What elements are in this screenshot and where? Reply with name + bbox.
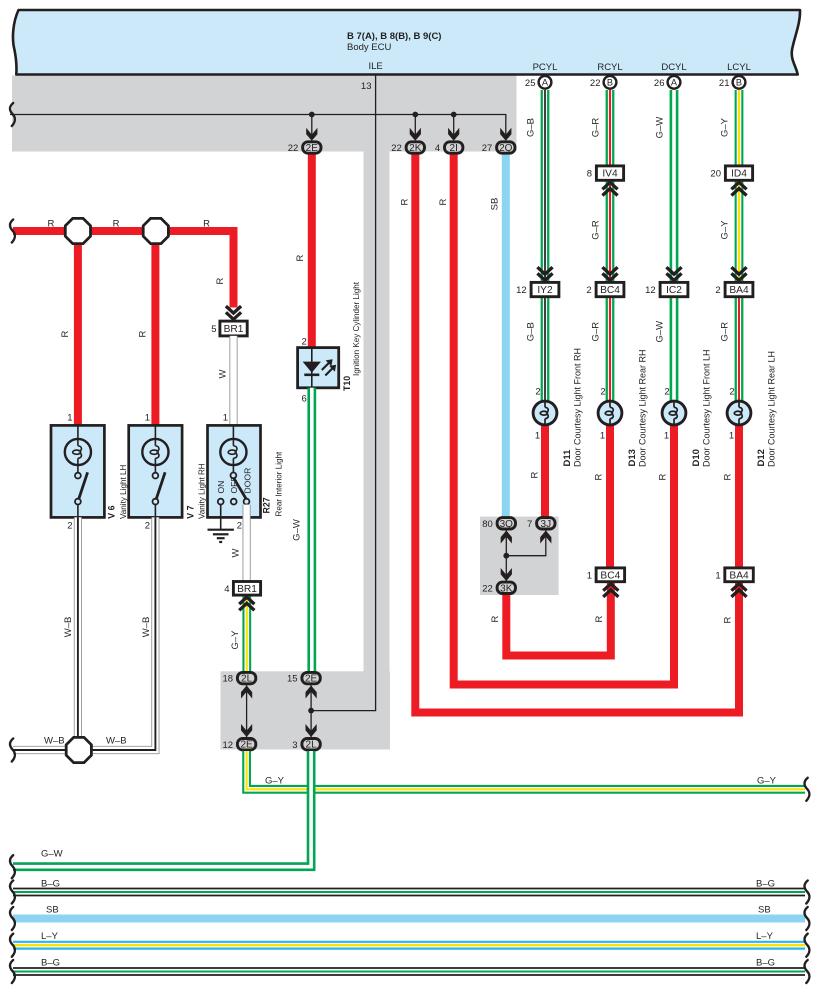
svg-text:2: 2 — [586, 285, 591, 296]
svg-text:1: 1 — [600, 431, 605, 442]
wire L-Y bus — [13, 941, 805, 950]
svg-text:OFF: OFF — [229, 476, 239, 493]
wire R from D12 to 1 BA4 — [735, 425, 743, 568]
arrows into ovals 2E 2K 2I 2Q — [306, 128, 317, 141]
wire G-W from 3 2L down-left to page break — [13, 751, 311, 867]
connector 4 BR1 with chevrons — [233, 582, 260, 596]
wire R outer U: 2K to 1 BA4 — [415, 154, 739, 713]
svg-text:A: A — [671, 78, 678, 88]
svg-text:2: 2 — [145, 521, 150, 532]
octagon junction J3 — [66, 737, 91, 762]
svg-text:R: R — [594, 615, 605, 622]
octagon junction J1 — [65, 218, 90, 243]
wire W from BR1 to R27 pin 1 — [229, 336, 237, 426]
svg-text:D13: D13 — [627, 449, 638, 466]
svg-text:R: R — [438, 198, 449, 205]
wire R horizontal from page break through octagon junctions, down to BR1 — [13, 231, 234, 308]
wire SB bus — [13, 915, 805, 923]
svg-text:R: R — [215, 277, 226, 284]
svg-text:Body ECU: Body ECU — [347, 42, 391, 53]
oval connector 4 2I — [445, 142, 463, 153]
connector line 18 2L to 12 2E — [246, 685, 248, 737]
svg-text:G–W: G–W — [655, 321, 666, 343]
svg-text:1: 1 — [729, 431, 734, 442]
svg-text:W: W — [231, 548, 242, 557]
svg-text:G–R: G–R — [591, 322, 602, 342]
connector 2 BA4 — [731, 273, 746, 280]
connector line 15 2E to 3 2L with ILE tap — [310, 685, 312, 737]
wire R from D11 to 7 3J — [541, 425, 549, 517]
svg-text:IC2: IC2 — [666, 285, 682, 296]
svg-text:G–Y: G–Y — [757, 776, 777, 787]
wire R inner U: 22 3K to 1 BC4 — [506, 582, 611, 656]
svg-text:ILE: ILE — [368, 61, 382, 72]
svg-text:B–G: B–G — [41, 878, 60, 889]
oval connector 18 2L — [237, 672, 255, 683]
oval connector 22 2E — [303, 142, 321, 153]
svg-text:2: 2 — [67, 521, 72, 532]
svg-text:B–G: B–G — [41, 957, 60, 968]
svg-text:8: 8 — [587, 169, 592, 180]
svg-text:BA4: BA4 — [729, 285, 749, 296]
terminal 21 B LCYL — [733, 76, 746, 89]
svg-text:3J: 3J — [541, 519, 552, 530]
wire W-B from V6 down to octagon junction — [74, 517, 82, 738]
wire G-Y from BR1 to connector 18 2L — [242, 595, 251, 671]
svg-text:G–Y: G–Y — [265, 776, 285, 787]
wire R from D13 to 1 BC4 — [606, 425, 614, 568]
oval connector 22 3K — [497, 582, 515, 593]
component R27 Rear Interior Light — [208, 425, 261, 517]
terminal 22 B RCYL — [604, 76, 617, 89]
svg-text:V 6: V 6 — [106, 505, 116, 518]
svg-text:R: R — [490, 615, 501, 622]
svg-text:G–R: G–R — [591, 118, 602, 138]
lamp D13 Door Courtesy Light Rear RH — [598, 401, 622, 425]
gray box around junction connectors 2L/2E — [221, 671, 391, 749]
svg-text:1: 1 — [587, 571, 592, 582]
gray harness band top — [12, 76, 517, 152]
svg-text:2Q: 2Q — [499, 143, 513, 154]
connector 1 BA4 — [725, 568, 754, 582]
lamp D10 Door Courtesy Light Front LH — [662, 401, 686, 425]
svg-text:R: R — [295, 254, 306, 261]
connector 12 IY2 — [537, 273, 552, 280]
svg-text:BR1: BR1 — [224, 324, 244, 335]
svg-text:R27: R27 — [262, 497, 272, 513]
junction lines 3Q 3J 3K — [505, 530, 507, 581]
oval connector 22 2K — [406, 142, 424, 153]
svg-text:A: A — [542, 78, 549, 88]
oval connector 15 2E — [302, 672, 320, 683]
oval connector 27 2Q — [497, 142, 515, 153]
svg-text:2: 2 — [237, 521, 242, 532]
svg-text:4: 4 — [224, 584, 229, 595]
svg-text:W–B: W–B — [44, 736, 65, 747]
svg-text:R: R — [47, 219, 54, 230]
lamp D11 Door Courtesy Light Front RH — [533, 401, 557, 425]
Body ECU block B7(A) B8(B) B9(C) — [13, 10, 800, 75]
svg-text:22: 22 — [590, 78, 601, 89]
wire ILE pin 13 down to junction dot — [311, 76, 376, 711]
svg-text:DOOR: DOOR — [243, 468, 253, 494]
svg-text:G–R: G–R — [720, 322, 731, 342]
svg-text:V 7: V 7 — [186, 505, 196, 518]
svg-text:R: R — [723, 616, 734, 623]
svg-text:G–B: G–B — [526, 118, 537, 137]
svg-text:W: W — [218, 369, 229, 378]
wire R drop to V6 — [74, 231, 82, 425]
svg-text:Door Courtesy Light Front RH: Door Courtesy Light Front RH — [573, 348, 583, 467]
svg-text:1: 1 — [67, 413, 72, 424]
svg-text:Door Courtesy Light Rear LH: Door Courtesy Light Rear LH — [767, 351, 777, 467]
svg-text:R: R — [60, 330, 71, 337]
oval connector 80 3Q — [497, 518, 515, 529]
connector 20 ID4 — [725, 166, 752, 180]
wire W-B octagon to page break left — [13, 746, 66, 754]
svg-text:D10: D10 — [691, 449, 702, 466]
svg-text:R: R — [658, 473, 669, 480]
wire G-Y from 12 2E to right page break — [247, 751, 805, 789]
svg-text:G–R: G–R — [591, 220, 602, 240]
svg-text:3K: 3K — [500, 583, 513, 594]
svg-text:1: 1 — [145, 413, 150, 424]
svg-text:W–B: W–B — [63, 617, 74, 638]
component V 6 Vanity Light LH — [51, 425, 104, 517]
svg-text:LCYL: LCYL — [727, 62, 751, 73]
svg-text:27: 27 — [482, 143, 493, 154]
svg-text:IV4: IV4 — [602, 169, 618, 180]
svg-text:2: 2 — [664, 387, 669, 398]
svg-text:B: B — [736, 78, 742, 88]
svg-text:D11: D11 — [562, 449, 573, 467]
octagon junction J2 — [143, 218, 168, 243]
svg-text:4: 4 — [435, 143, 440, 154]
wire G-B PCYL column — [541, 90, 550, 282]
wire B-G bus 2 — [13, 967, 805, 976]
svg-text:SB: SB — [46, 904, 59, 915]
lamp D12 Door Courtesy Light Rear LH — [727, 401, 751, 425]
svg-text:DCYL: DCYL — [661, 62, 686, 73]
page break marks right — [804, 778, 809, 801]
svg-text:SB: SB — [758, 904, 771, 915]
ground — [208, 529, 234, 531]
svg-text:BC4: BC4 — [600, 285, 620, 296]
svg-text:R: R — [113, 219, 120, 230]
wire W-B from V7 down then left into octagon — [91, 517, 155, 750]
svg-text:12: 12 — [223, 740, 234, 751]
svg-text:L–Y: L–Y — [756, 931, 774, 942]
svg-text:26: 26 — [654, 78, 665, 89]
gray vertical strip along ILE wire — [364, 152, 390, 672]
svg-text:RCYL: RCYL — [597, 62, 622, 73]
svg-text:BR1: BR1 — [237, 584, 257, 595]
wire from page break across gray band y=114.5 — [10, 115, 506, 138]
svg-text:2L: 2L — [241, 674, 253, 685]
svg-text:2: 2 — [302, 337, 307, 348]
svg-text:G–Y: G–Y — [720, 220, 731, 240]
svg-text:B–G: B–G — [756, 957, 775, 968]
svg-text:2E: 2E — [306, 143, 319, 154]
svg-text:2I: 2I — [450, 143, 458, 154]
svg-text:7: 7 — [527, 519, 532, 530]
svg-text:21: 21 — [719, 78, 730, 89]
connector 2 BC4 — [602, 273, 617, 280]
svg-text:22: 22 — [482, 583, 493, 594]
wire W from R27 pin 2 to connector 4 BR1 — [243, 505, 251, 582]
oval connector 12 2E — [237, 739, 255, 750]
svg-text:B–G: B–G — [756, 878, 775, 889]
wire G-Y / G-R LCYL column — [735, 90, 744, 166]
svg-text:1: 1 — [535, 431, 540, 442]
svg-text:2: 2 — [715, 285, 720, 296]
svg-text:Vanity Light RH: Vanity Light RH — [197, 463, 206, 519]
wire R middle U: 2I to D10 — [454, 154, 674, 685]
wire SB from 2Q to 80 3Q — [502, 154, 510, 517]
svg-text:PCYL: PCYL — [533, 62, 558, 73]
svg-text:ID4: ID4 — [731, 169, 747, 180]
connector 1 BC4 — [596, 568, 625, 582]
svg-text:22: 22 — [288, 143, 299, 154]
svg-text:18: 18 — [223, 674, 234, 685]
svg-text:R: R — [203, 219, 210, 230]
connector 12 IC2 — [666, 273, 681, 280]
svg-text:12: 12 — [516, 285, 527, 296]
component V 7 Vanity Light RH — [129, 425, 182, 517]
svg-text:2K: 2K — [409, 143, 422, 154]
svg-text:G–B: G–B — [526, 322, 537, 341]
svg-text:G–W: G–W — [655, 117, 666, 139]
svg-text:R: R — [723, 473, 734, 480]
wire G-W DCYL column — [670, 90, 679, 282]
svg-text:15: 15 — [287, 674, 298, 685]
svg-text:Rear Interior Light: Rear Interior Light — [275, 451, 284, 517]
svg-text:20: 20 — [710, 169, 721, 180]
svg-text:6: 6 — [302, 394, 307, 405]
wire G-R RCYL column — [606, 90, 615, 166]
svg-text:L–Y: L–Y — [41, 931, 59, 942]
svg-text:1: 1 — [715, 571, 720, 582]
wire B-G bus 1 — [13, 888, 805, 897]
svg-text:3: 3 — [292, 740, 297, 751]
oval connector 3 2L — [302, 739, 320, 750]
oval connector 7 3J — [537, 518, 555, 529]
svg-text:G–Y: G–Y — [720, 117, 731, 137]
svg-text:R: R — [400, 198, 411, 205]
svg-text:B 7(A), B 8(B), B 9(C): B 7(A), B 8(B), B 9(C) — [347, 31, 441, 42]
svg-text:25: 25 — [525, 78, 536, 89]
svg-text:W–B: W–B — [141, 617, 152, 638]
svg-text:D12: D12 — [756, 449, 767, 466]
svg-text:12: 12 — [645, 285, 656, 296]
connector 8 IV4 — [596, 166, 623, 180]
terminal 25 A PCYL — [539, 76, 552, 89]
svg-text:R: R — [138, 330, 149, 337]
component T10 Ignition Key Cylinder Light (LED) — [298, 348, 339, 388]
terminal 26 A DCYL — [668, 76, 681, 89]
svg-text:BC4: BC4 — [600, 570, 620, 581]
wire G-W from T10 pin 6 to connector 15 2E — [307, 388, 316, 672]
svg-text:Ignition Key Cylinder Light: Ignition Key Cylinder Light — [352, 281, 361, 376]
svg-text:SB: SB — [490, 198, 501, 211]
svg-text:2E: 2E — [305, 674, 318, 685]
svg-text:IY2: IY2 — [537, 285, 553, 296]
wire R drop to V7 — [151, 231, 159, 425]
svg-text:ON: ON — [216, 481, 226, 494]
svg-text:G–W: G–W — [292, 519, 303, 541]
svg-text:5: 5 — [211, 324, 216, 335]
svg-text:1: 1 — [664, 431, 669, 442]
svg-text:2: 2 — [535, 387, 540, 398]
svg-text:2L: 2L — [306, 740, 318, 751]
svg-text:T10: T10 — [342, 376, 352, 391]
svg-text:22: 22 — [391, 143, 402, 154]
connector 5 BR1 with chevrons — [226, 312, 241, 319]
svg-text:1: 1 — [223, 413, 228, 424]
svg-text:80: 80 — [482, 519, 493, 530]
svg-text:W–B: W–B — [106, 736, 127, 747]
svg-text:2: 2 — [729, 387, 734, 398]
svg-text:R: R — [594, 473, 605, 480]
wire R from 2E to T10 — [308, 154, 316, 348]
svg-text:G–W: G–W — [41, 849, 63, 860]
svg-text:B: B — [607, 78, 613, 88]
svg-text:2E: 2E — [240, 740, 253, 751]
svg-text:3Q: 3Q — [500, 519, 514, 530]
svg-text:R: R — [530, 471, 541, 478]
svg-text:2: 2 — [600, 387, 605, 398]
junction dots on feed line — [309, 112, 315, 118]
svg-text:13: 13 — [361, 81, 372, 92]
svg-text:G–Y: G–Y — [230, 630, 241, 650]
svg-text:Door Courtesy Light Rear RH: Door Courtesy Light Rear RH — [638, 349, 648, 467]
svg-text:Door Courtesy Light Front LH: Door Courtesy Light Front LH — [702, 349, 712, 467]
svg-text:Vanity Light LH: Vanity Light LH — [119, 465, 128, 519]
page break marks left — [10, 103, 15, 126]
svg-text:BA4: BA4 — [729, 570, 749, 581]
gray box around junction connectors 3Q/3J/3K — [480, 517, 559, 595]
